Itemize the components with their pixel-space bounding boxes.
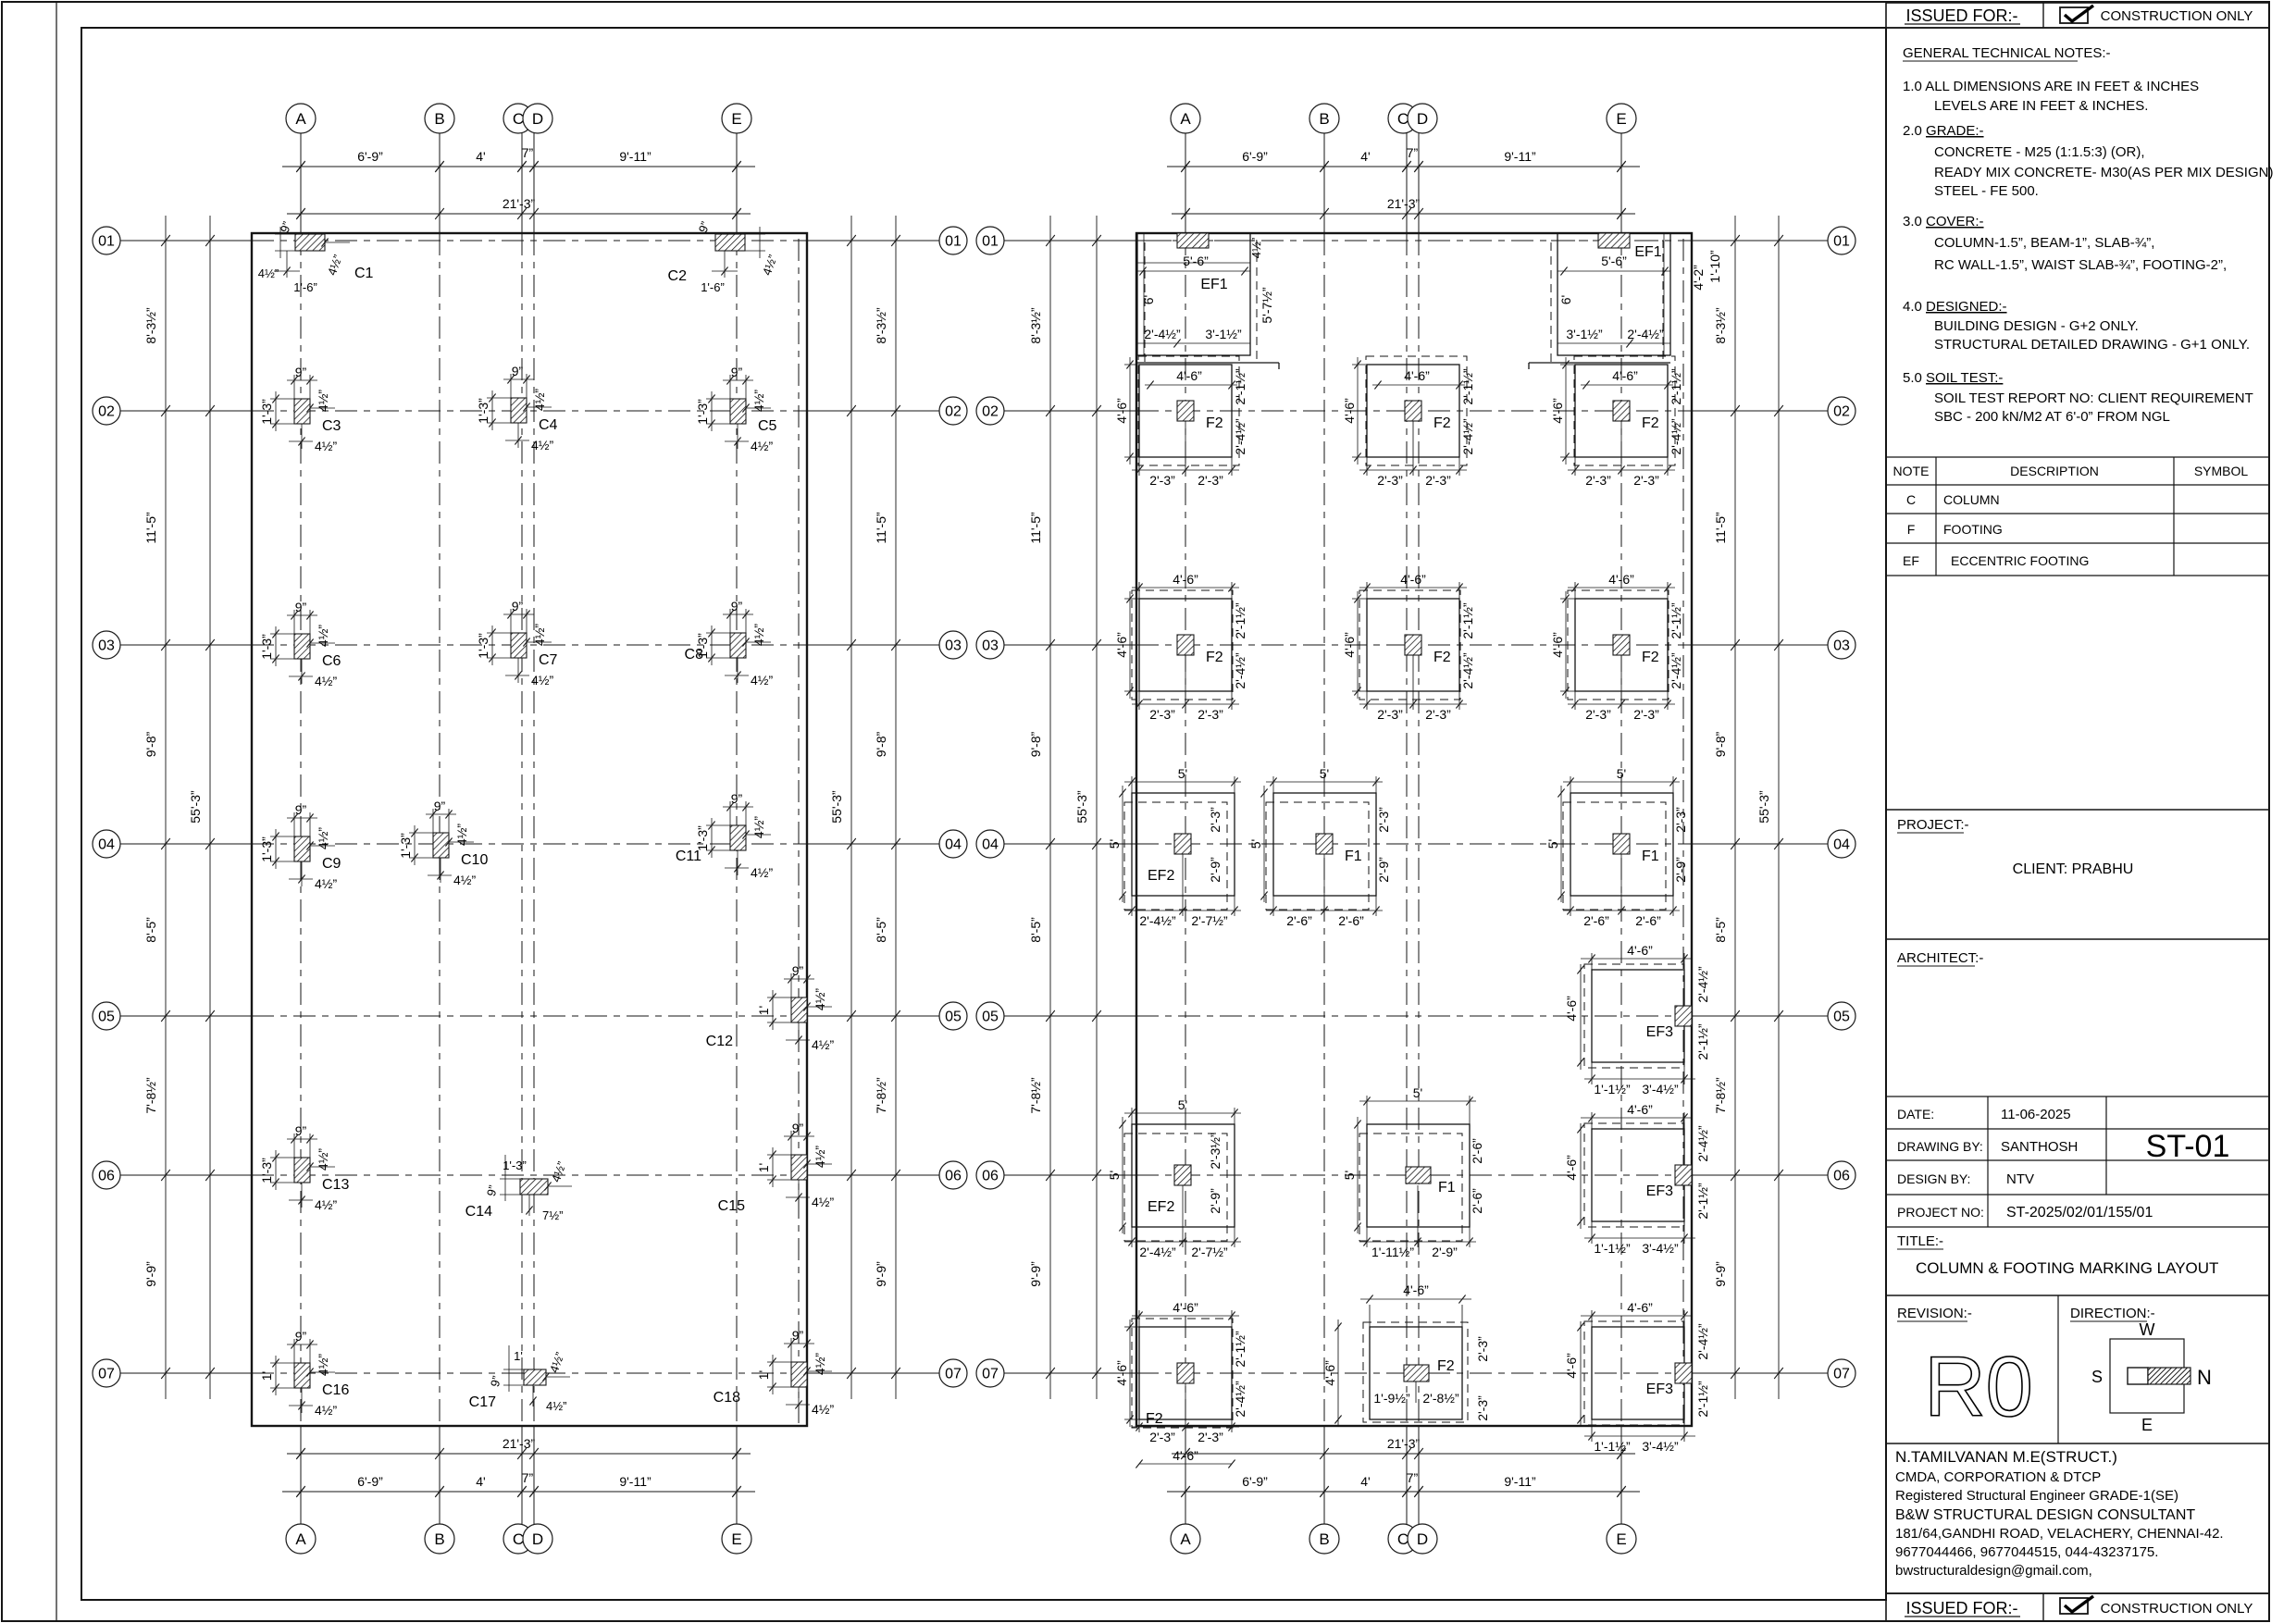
grid bubble 02 right-plan left <box>976 397 1004 425</box>
svg-text:2'-4½”: 2'-4½” <box>1627 327 1664 341</box>
svg-text:2'-4½”: 2'-4½” <box>1139 1245 1176 1259</box>
svg-text:2'-4½”: 2'-4½” <box>1669 652 1683 689</box>
svg-text:EF2: EF2 <box>1148 868 1174 884</box>
svg-text:B: B <box>1319 110 1329 128</box>
svg-text:4½”: 4½” <box>813 1146 827 1168</box>
svg-text:181/64,GANDHI ROAD, VELACHERY,: 181/64,GANDHI ROAD, VELACHERY, CHENNAI-4… <box>1895 1526 2224 1542</box>
svg-text:C17: C17 <box>469 1394 496 1410</box>
svg-text:9'-9”: 9'-9” <box>874 1261 888 1287</box>
svg-text:21'-3”: 21'-3” <box>503 1436 536 1451</box>
svg-text:SYMBOL: SYMBOL <box>2194 464 2249 478</box>
grid bubble 01 far right <box>1828 227 1855 254</box>
svg-text:BUILDING DESIGN - G+2 ONLY.: BUILDING DESIGN - G+2 ONLY. <box>1934 318 2139 334</box>
footing F2 at (1752,444) <box>1550 356 1683 488</box>
svg-text:8'-3½”: 8'-3½” <box>143 307 158 344</box>
svg-text:CMDA, CORPORATION & DTCP: CMDA, CORPORATION & DTCP <box>1895 1469 2101 1485</box>
svg-text:2.0 GRADE:-: 2.0 GRADE:- <box>1903 123 1984 139</box>
grid bubble A top left <box>286 104 316 133</box>
svg-text:4½”: 4½” <box>315 1403 337 1418</box>
column C15 <box>718 1121 835 1214</box>
grid bubbles C D top left <box>503 104 533 133</box>
svg-text:21'-3”: 21'-3” <box>503 196 536 211</box>
svg-text:C: C <box>513 1530 524 1548</box>
svg-text:2'-3”: 2'-3” <box>1208 807 1222 833</box>
svg-text:2'-6”: 2'-6” <box>1635 913 1661 928</box>
row grid line 03 <box>120 644 252 646</box>
svg-text:06: 06 <box>1833 1169 1850 1184</box>
footing F2 at (1281,697) <box>1114 572 1247 722</box>
grid bubble 04 left-plan right <box>939 830 967 858</box>
svg-text:4½”: 4½” <box>316 625 330 647</box>
column C11 <box>676 791 774 880</box>
column C2 <box>668 219 780 294</box>
svg-text:F2: F2 <box>1437 1358 1455 1374</box>
svg-text:5'-7½”: 5'-7½” <box>1260 287 1274 324</box>
svg-text:EF3: EF3 <box>1646 1381 1673 1397</box>
svg-text:3'-1½”: 3'-1½” <box>1205 327 1242 341</box>
svg-text:5': 5' <box>1107 1171 1122 1180</box>
svg-text:EF1: EF1 <box>1200 277 1227 292</box>
svg-text:ISSUED FOR:-: ISSUED FOR:- <box>1905 6 2017 25</box>
svg-text:DESCRIPTION: DESCRIPTION <box>2010 464 2099 478</box>
svg-text:7”: 7” <box>522 1470 534 1485</box>
vertical dimension chain overall left plan right side <box>850 216 852 1399</box>
svg-text:21'-3”: 21'-3” <box>1387 196 1421 211</box>
bottom overall dimension 21'-3" right plan <box>1172 1453 1635 1455</box>
svg-text:02: 02 <box>98 404 115 420</box>
svg-text:01: 01 <box>982 234 999 250</box>
svg-text:07: 07 <box>98 1367 115 1382</box>
svg-text:TITLE:-: TITLE:- <box>1897 1233 1943 1249</box>
svg-text:E: E <box>2141 1416 2153 1434</box>
svg-text:4½”: 4½” <box>316 827 330 849</box>
svg-text:2'-3”: 2'-3” <box>1475 1395 1490 1421</box>
top overall dimension 21'-3" right plan <box>1172 213 1635 215</box>
svg-text:9”: 9” <box>731 791 743 806</box>
svg-text:CONCRETE - M25 (1:1.5:3) (OR): CONCRETE - M25 (1:1.5:3) (OR), <box>1934 144 2145 160</box>
svg-text:4½”: 4½” <box>812 1037 834 1052</box>
svg-text:COLUMN & FOOTING MARKING LAYOU: COLUMN & FOOTING MARKING LAYOUT <box>1916 1259 2218 1277</box>
svg-text:E: E <box>731 1530 741 1548</box>
row grid line 07 <box>120 1372 252 1374</box>
svg-text:9”: 9” <box>731 599 743 613</box>
svg-text:1'-1½”: 1'-1½” <box>1594 1241 1631 1256</box>
grid bubble 05 right-plan left <box>976 1002 1004 1030</box>
svg-text:4'-6”: 4'-6” <box>1114 1360 1129 1386</box>
svg-text:C2: C2 <box>668 268 688 284</box>
svg-text:5'-6”: 5'-6” <box>1183 254 1209 268</box>
svg-text:8'-5”: 8'-5” <box>1713 917 1728 943</box>
left plan building outline <box>252 233 807 1426</box>
svg-text:2'-9”: 2'-9” <box>1208 857 1222 883</box>
svg-text:4½”: 4½” <box>812 1402 834 1417</box>
svg-text:C: C <box>513 110 524 128</box>
svg-text:9'-11”: 9'-11” <box>619 1474 652 1489</box>
svg-text:2'-1½”: 2'-1½” <box>1695 1381 1710 1418</box>
grid bubble 01 far left <box>93 227 120 254</box>
svg-text:02: 02 <box>982 404 999 420</box>
svg-text:2'-3”: 2'-3” <box>1198 473 1223 488</box>
svg-text:9'-11”: 9'-11” <box>1504 1474 1536 1489</box>
footing F2 at (1527,444) <box>1342 356 1475 488</box>
svg-text:EF1: EF1 <box>1634 244 1661 260</box>
svg-text:C14: C14 <box>465 1204 492 1220</box>
svg-text:4'-6”: 4'-6” <box>1550 632 1565 658</box>
grid bubbles C D bottom left <box>503 1524 533 1554</box>
project section <box>1886 810 2269 877</box>
svg-text:D: D <box>532 1530 543 1548</box>
svg-text:2'-3”: 2'-3” <box>1585 473 1611 488</box>
svg-text:9'-9”: 9'-9” <box>143 1261 158 1287</box>
grid bubble 04 right-plan left <box>976 830 1004 858</box>
svg-text:9”: 9” <box>295 600 307 614</box>
svg-text:DIRECTION:-: DIRECTION:- <box>2070 1306 2155 1321</box>
svg-text:6': 6' <box>1558 295 1573 304</box>
svg-text:FOOTING: FOOTING <box>1943 522 2003 537</box>
svg-text:4½”: 4½” <box>751 865 773 880</box>
svg-text:N.TAMILVANAN M.E(STRUCT.): N.TAMILVANAN M.E(STRUCT.) <box>1895 1448 2117 1466</box>
column C8 <box>685 599 774 688</box>
revision section with R0 <box>1897 1295 2058 1443</box>
top overall dimension 21'-3" left plan <box>287 213 751 215</box>
svg-text:7½”: 7½” <box>542 1208 563 1222</box>
svg-text:DATE:: DATE: <box>1897 1107 1934 1121</box>
date / drawing-by / design-by / project-no rows <box>1886 1096 2269 1227</box>
svg-text:1'-3”: 1'-3” <box>503 1158 527 1172</box>
svg-text:F2: F2 <box>1433 415 1451 431</box>
column C10 <box>398 799 488 887</box>
svg-text:NOTE: NOTE <box>1893 464 1930 478</box>
grid bubble E top left <box>722 104 751 133</box>
svg-text:4'-6”: 4'-6” <box>1114 632 1129 658</box>
footing F1 at (1431,912) <box>1248 766 1391 928</box>
svg-text:C4: C4 <box>539 417 558 433</box>
svg-text:2'-4½”: 2'-4½” <box>1139 913 1176 928</box>
svg-text:2'-9”: 2'-9” <box>1376 857 1391 883</box>
svg-text:F2: F2 <box>1206 415 1223 431</box>
svg-text:2'-3”: 2'-3” <box>1376 807 1391 833</box>
svg-text:2'-3”: 2'-3” <box>1633 707 1659 722</box>
svg-text:1'-6”: 1'-6” <box>293 280 317 294</box>
grid bubble A bottom left <box>286 1524 316 1554</box>
svg-text:4'-6”: 4'-6” <box>1173 1448 1198 1463</box>
svg-text:DRAWING BY:: DRAWING BY: <box>1897 1139 1983 1154</box>
svg-text:2'-1½”: 2'-1½” <box>1233 368 1247 405</box>
footing F1 at (1752,912) <box>1545 766 1688 928</box>
svg-text:A: A <box>295 1530 306 1548</box>
svg-text:5': 5' <box>1248 839 1263 849</box>
eccentric footing EF1 top-right of right plan <box>1529 233 1722 369</box>
svg-text:2'-3”: 2'-3” <box>1673 807 1688 833</box>
svg-text:2'-3”: 2'-3” <box>1377 707 1403 722</box>
top dimension line segments left plan <box>282 166 755 167</box>
footing EF2 at (1278,912) <box>1107 766 1241 928</box>
svg-text:4½”: 4½” <box>532 624 547 646</box>
column C3 <box>259 365 341 453</box>
svg-text:6': 6' <box>1141 295 1156 304</box>
row grid line 01 <box>120 240 252 242</box>
svg-text:5': 5' <box>1178 1097 1187 1112</box>
svg-text:2'-4½”: 2'-4½” <box>1144 327 1181 341</box>
svg-text:ECCENTRIC FOOTING: ECCENTRIC FOOTING <box>1951 553 2089 568</box>
svg-text:4'-6”: 4'-6” <box>1342 398 1357 424</box>
svg-text:1': 1' <box>756 1163 771 1172</box>
svg-text:2'-1½”: 2'-1½” <box>1460 602 1475 639</box>
svg-text:DESIGN BY:: DESIGN BY: <box>1897 1171 1970 1186</box>
svg-text:4½”: 4½” <box>1249 238 1263 258</box>
column grid line D right plan <box>1418 133 1420 233</box>
eccentric footing EF1 top-left of right plan <box>1137 233 1279 369</box>
svg-text:2'-3”: 2'-3” <box>1198 707 1223 722</box>
svg-text:4': 4' <box>476 149 485 164</box>
svg-text:W: W <box>2140 1320 2155 1339</box>
grid bubble A top right <box>1171 104 1200 133</box>
svg-text:11-06-2025: 11-06-2025 <box>2001 1107 2071 1122</box>
grid bubble 03 far right <box>1828 631 1855 659</box>
grid bubble B bottom left <box>425 1524 454 1554</box>
grid bubble 05 far right <box>1828 1002 1855 1030</box>
svg-text:1'-3”: 1'-3” <box>695 825 710 851</box>
svg-text:4½”: 4½” <box>751 390 766 412</box>
svg-text:C: C <box>1397 110 1409 128</box>
vertical dimension chain segments far left <box>165 216 167 1399</box>
svg-text:7”: 7” <box>522 145 534 160</box>
grid bubble 07 far left <box>93 1359 120 1387</box>
svg-text:07: 07 <box>982 1367 999 1382</box>
svg-text:A: A <box>295 110 306 128</box>
eccentric footing EF3 at E row y=1270 <box>1564 1102 1710 1256</box>
svg-text:2'-3”: 2'-3” <box>1585 707 1611 722</box>
svg-text:1'-3”: 1'-3” <box>259 634 274 660</box>
svg-text:4'-6”: 4'-6” <box>1564 996 1579 1022</box>
svg-text:55'-3”: 55'-3” <box>188 790 203 824</box>
svg-text:C: C <box>1397 1530 1409 1548</box>
svg-text:1'-6”: 1'-6” <box>701 280 725 294</box>
svg-text:1': 1' <box>259 1371 274 1381</box>
svg-text:8'-5”: 8'-5” <box>143 917 158 943</box>
svg-text:2'-4½”: 2'-4½” <box>1233 418 1247 455</box>
svg-text:2'-1½”: 2'-1½” <box>1669 368 1683 405</box>
column grid line A left plan <box>300 133 302 233</box>
svg-text:4': 4' <box>1360 1474 1370 1489</box>
column grid line E right plan <box>1620 133 1622 233</box>
svg-text:4½”: 4½” <box>315 1197 337 1212</box>
svg-text:9”: 9” <box>512 599 524 613</box>
svg-text:4'-6”: 4'-6” <box>1400 572 1426 587</box>
grid bubble 01 left-plan right <box>939 227 967 254</box>
svg-text:B: B <box>434 1530 444 1548</box>
svg-text:C9: C9 <box>322 856 341 872</box>
footing F2 at (1281,444) <box>1114 356 1247 488</box>
svg-text:1.0 ALL DIMENSIONS ARE IN FEET: 1.0 ALL DIMENSIONS ARE IN FEET & INCHES <box>1903 79 2199 94</box>
column C17 <box>469 1345 570 1413</box>
svg-text:2'-3”: 2'-3” <box>1198 1430 1223 1444</box>
title section <box>1886 1233 2269 1295</box>
svg-text:1': 1' <box>514 1349 523 1363</box>
grid bubble 06 left-plan right <box>939 1161 967 1189</box>
svg-text:A: A <box>1180 110 1191 128</box>
footing EF2 at (1278,1270) <box>1107 1097 1241 1259</box>
svg-text:4½”: 4½” <box>316 1354 330 1376</box>
svg-text:CLIENT: PRABHU: CLIENT: PRABHU <box>2013 861 2134 877</box>
svg-text:A: A <box>1180 1530 1191 1548</box>
svg-text:11'-5”: 11'-5” <box>1028 512 1043 544</box>
svg-text:1'-3”: 1'-3” <box>695 399 710 425</box>
grid bubbles C D bottom right <box>1388 1524 1418 1554</box>
svg-text:F1: F1 <box>1438 1180 1456 1196</box>
svg-text:C5: C5 <box>758 418 777 434</box>
svg-text:5'-6”: 5'-6” <box>1601 254 1627 268</box>
svg-text:4'-6”: 4'-6” <box>1612 368 1638 383</box>
footing F1 at (1532,1270) <box>1342 1085 1484 1259</box>
svg-text:06: 06 <box>982 1169 999 1184</box>
svg-text:3'-4½”: 3'-4½” <box>1642 1241 1679 1256</box>
svg-text:EF3: EF3 <box>1646 1024 1673 1040</box>
svg-text:1'-3”: 1'-3” <box>259 1158 274 1183</box>
svg-text:6'-9”: 6'-9” <box>357 149 383 164</box>
svg-text:4½”: 4½” <box>751 439 773 453</box>
svg-text:2'-3”: 2'-3” <box>1475 1336 1490 1362</box>
svg-text:1'-1½”: 1'-1½” <box>1594 1439 1631 1454</box>
svg-text:bwstructuraldesign@gmail.com,: bwstructuraldesign@gmail.com, <box>1895 1563 2092 1579</box>
svg-text:NTV: NTV <box>2006 1171 2034 1187</box>
svg-text:F2: F2 <box>1206 650 1223 665</box>
svg-text:55'-3”: 55'-3” <box>1756 790 1771 824</box>
svg-text:4½”: 4½” <box>315 674 337 688</box>
svg-text:F2: F2 <box>1146 1411 1163 1427</box>
top dimension line segments right plan <box>1167 166 1640 167</box>
grid bubble 04 far right <box>1828 830 1855 858</box>
svg-text:7'-8½”: 7'-8½” <box>1028 1077 1043 1114</box>
svg-text:C10: C10 <box>461 852 488 868</box>
svg-text:05: 05 <box>98 1010 115 1025</box>
svg-text:1': 1' <box>756 1006 771 1015</box>
svg-text:9”: 9” <box>295 1123 307 1138</box>
svg-text:02: 02 <box>945 404 962 420</box>
svg-text:04: 04 <box>1833 837 1850 853</box>
grid bubble 07 far right <box>1828 1359 1855 1387</box>
row grid line 04 <box>120 843 252 845</box>
svg-text:C8: C8 <box>685 647 704 663</box>
svg-text:4'-6”: 4'-6” <box>1608 572 1634 587</box>
svg-text:ISSUED FOR:-: ISSUED FOR:- <box>1905 1599 2017 1617</box>
svg-text:2'-3”: 2'-3” <box>1425 707 1451 722</box>
svg-text:4'-2”: 4'-2” <box>1691 265 1706 291</box>
svg-text:2'-3½”: 2'-3½” <box>1208 1133 1222 1170</box>
svg-text:4½”: 4½” <box>453 873 476 887</box>
grid bubble A bottom right <box>1171 1524 1200 1554</box>
column C18 <box>714 1328 835 1417</box>
svg-text:9'-8”: 9'-8” <box>1713 731 1728 757</box>
svg-text:03: 03 <box>945 638 962 654</box>
svg-text:C15: C15 <box>718 1198 745 1214</box>
svg-text:07: 07 <box>945 1367 962 1382</box>
svg-text:4½”: 4½” <box>258 266 279 280</box>
svg-text:4'-6”: 4'-6” <box>1342 632 1357 658</box>
svg-text:COLUMN: COLUMN <box>1943 492 2000 507</box>
svg-text:4': 4' <box>476 1474 485 1489</box>
svg-text:05: 05 <box>1833 1010 1850 1025</box>
svg-text:2'-4½”: 2'-4½” <box>1695 1323 1710 1360</box>
right plan building outline <box>1136 233 1692 1426</box>
column grid line A right plan <box>1185 133 1186 233</box>
svg-text:C7: C7 <box>539 652 558 668</box>
svg-text:4½”: 4½” <box>812 1195 834 1209</box>
svg-text:CONSTRUCTION ONLY: CONSTRUCTION ONLY <box>2101 1601 2253 1617</box>
grid bubble 06 right-plan left <box>976 1161 1004 1189</box>
left margin strip line <box>56 2 57 1621</box>
grid bubble E bottom right <box>1607 1524 1636 1554</box>
svg-text:4½”: 4½” <box>751 816 766 838</box>
vertical dimension chain overall right plan right side <box>1778 216 1780 1399</box>
svg-text:5': 5' <box>1342 1171 1357 1180</box>
svg-text:2'-1½”: 2'-1½” <box>1669 602 1683 639</box>
svg-text:8'-5”: 8'-5” <box>874 917 888 943</box>
grid bubble E top right <box>1607 104 1636 133</box>
svg-text:S: S <box>2091 1368 2103 1386</box>
grid bubble 03 far left <box>93 631 120 659</box>
svg-text:4½”: 4½” <box>316 390 330 412</box>
svg-text:04: 04 <box>98 837 115 853</box>
grid bubble 05 far left <box>93 1002 120 1030</box>
column C7 <box>476 599 558 688</box>
svg-text:07: 07 <box>1833 1367 1850 1382</box>
svg-text:9677044466, 9677044515, 044-43: 9677044466, 9677044515, 044-43237175. <box>1895 1544 2158 1560</box>
svg-text:4'-6”: 4'-6” <box>1176 368 1202 383</box>
svg-text:COLUMN-1.5”, BEAM-1”, SLAB-¾”,: COLUMN-1.5”, BEAM-1”, SLAB-¾”, <box>1934 235 2154 251</box>
svg-text:9'-11”: 9'-11” <box>1504 149 1536 164</box>
svg-text:9”: 9” <box>792 1121 804 1135</box>
vertical dimension chain segments left plan right side <box>895 216 897 1399</box>
grid bubble 06 far right <box>1828 1161 1855 1189</box>
column C13 <box>259 1123 349 1212</box>
svg-text:EF2: EF2 <box>1148 1199 1174 1215</box>
svg-text:R0: R0 <box>1924 1340 2033 1434</box>
svg-text:05: 05 <box>982 1010 999 1025</box>
svg-text:4½”: 4½” <box>454 824 469 846</box>
svg-text:9'-9”: 9'-9” <box>1028 1261 1043 1287</box>
column C14 <box>465 1155 572 1222</box>
svg-text:1'-10”: 1'-10” <box>1707 250 1722 283</box>
vertical dimension chain overall right plan left side <box>1096 216 1098 1399</box>
left plan inner wall dashed line <box>798 239 800 1423</box>
svg-text:02: 02 <box>1833 404 1850 420</box>
svg-text:C3: C3 <box>322 418 341 434</box>
svg-text:1'-3”: 1'-3” <box>398 833 413 859</box>
svg-text:2'-4½”: 2'-4½” <box>1669 418 1683 455</box>
engineer footer text <box>1895 1448 2224 1579</box>
column grid line E left plan <box>736 133 738 233</box>
column grid line C right plan <box>1406 133 1408 233</box>
svg-text:B: B <box>434 110 444 128</box>
svg-text:5': 5' <box>1413 1085 1422 1100</box>
svg-text:7'-8½”: 7'-8½” <box>1713 1077 1728 1114</box>
grid bubble E bottom left <box>722 1524 751 1554</box>
svg-text:SBC - 200 kN/M2 AT 6'-0” FROM: SBC - 200 kN/M2 AT 6'-0” FROM NGL <box>1934 409 2170 425</box>
svg-text:7”: 7” <box>1407 1470 1419 1485</box>
svg-text:D: D <box>532 110 543 128</box>
svg-text:4½”: 4½” <box>531 673 553 688</box>
row grid line 06 <box>120 1174 252 1176</box>
svg-text:6'-9”: 6'-9” <box>1242 1474 1268 1489</box>
grid bubble 03 right-plan left <box>976 631 1004 659</box>
grid bubble 07 right-plan left <box>976 1359 1004 1387</box>
svg-text:9”: 9” <box>295 365 307 379</box>
svg-text:N: N <box>2197 1366 2212 1389</box>
footing F2 at (1530,1484) middle row 07 <box>1322 1282 1490 1427</box>
svg-text:F1: F1 <box>1642 849 1659 864</box>
svg-text:03: 03 <box>982 638 999 654</box>
